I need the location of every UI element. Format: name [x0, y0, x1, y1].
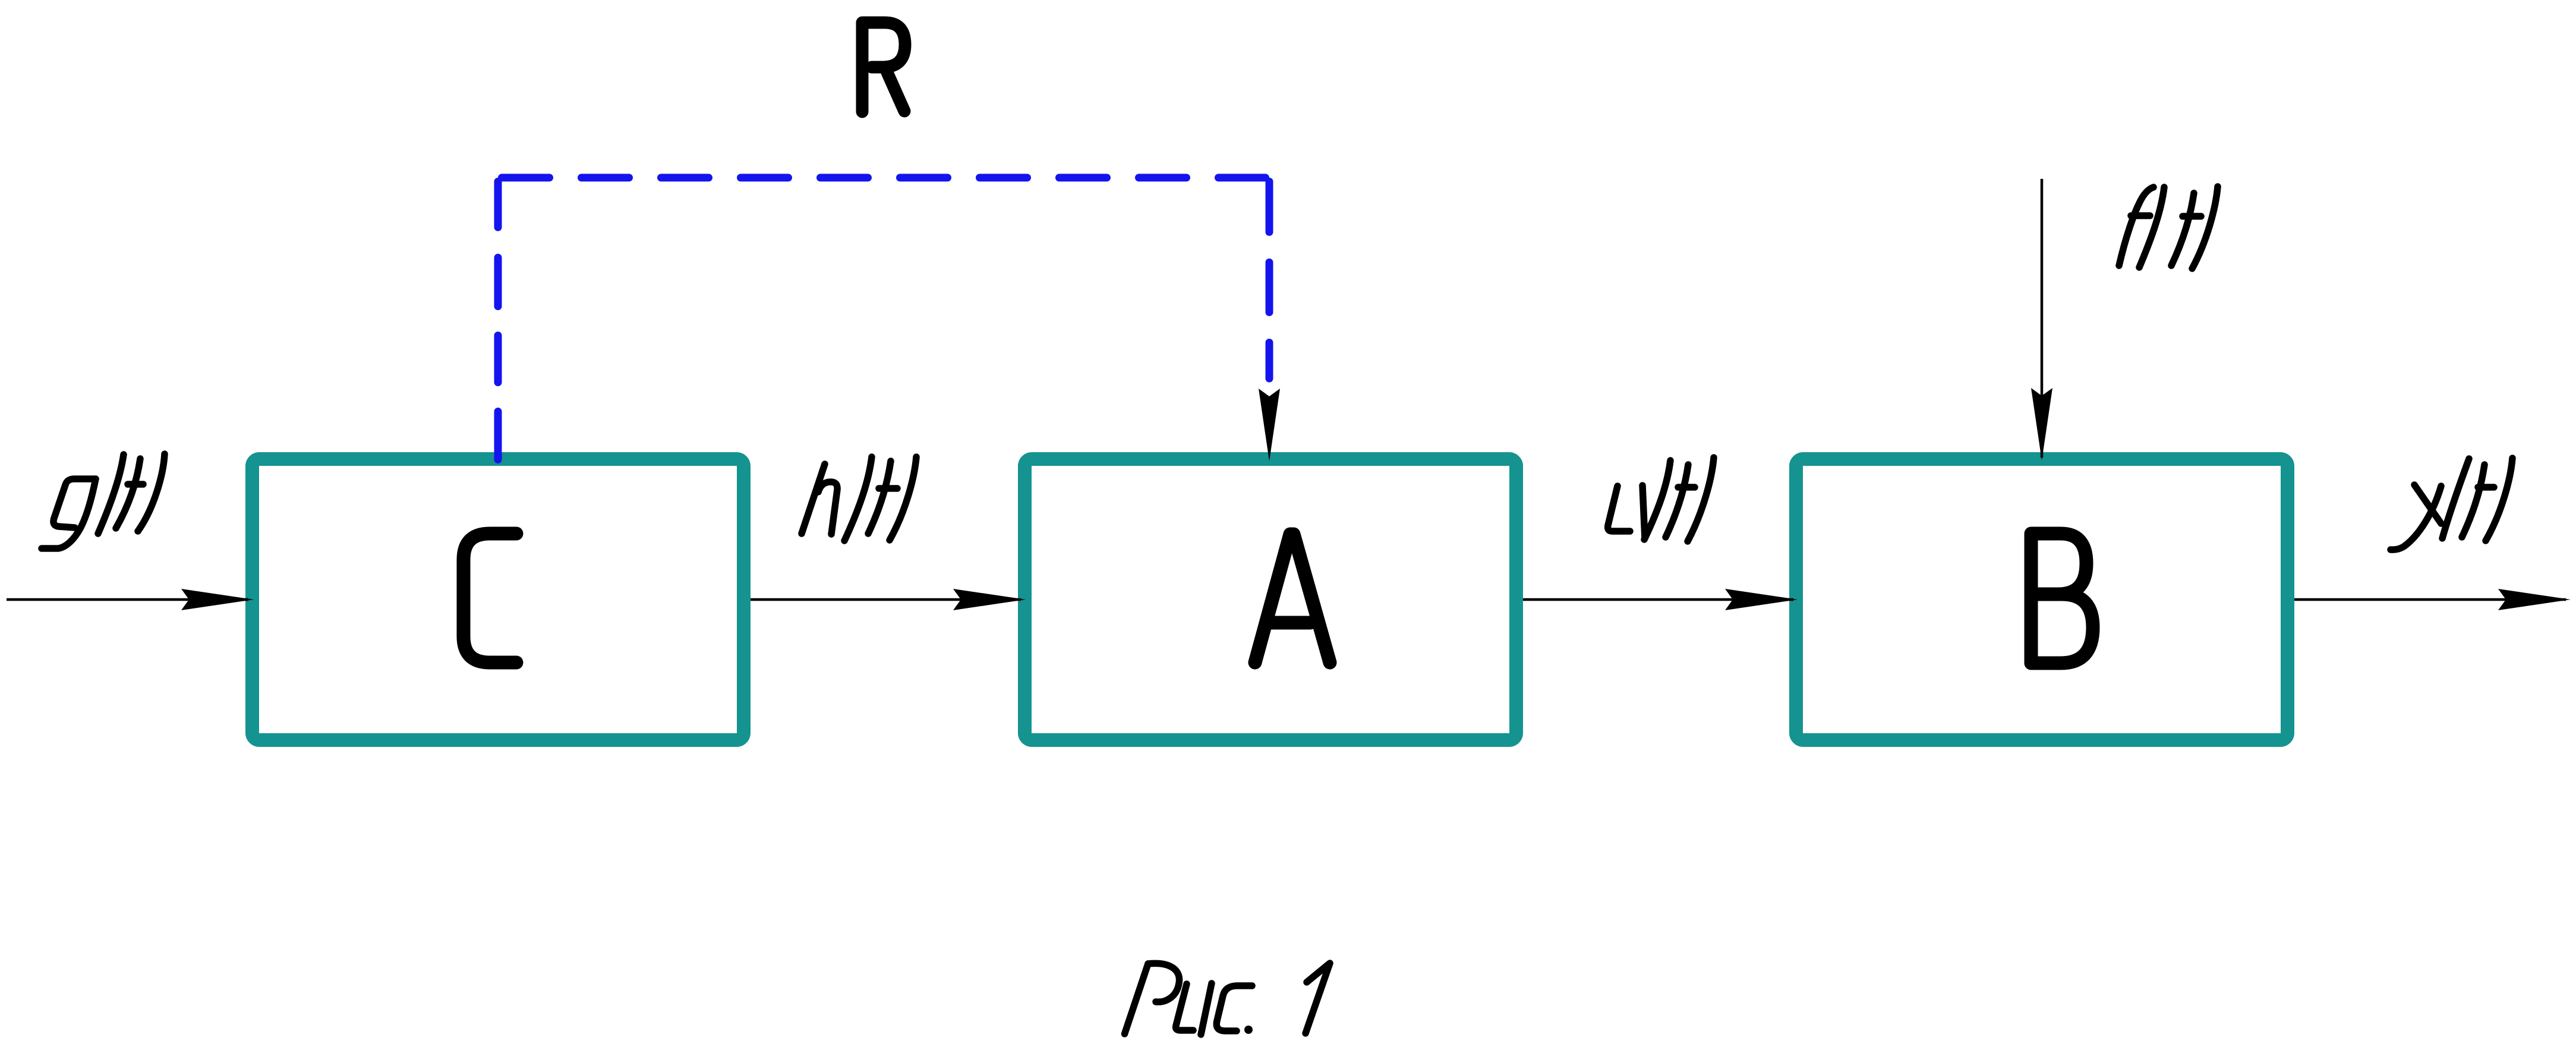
- label u(t): [1608, 458, 1714, 541]
- label y(t): [2391, 458, 2512, 550]
- wire f(t): [2041, 179, 2044, 458]
- caption 1: [1306, 963, 1330, 1033]
- label g(t): [42, 454, 165, 548]
- block A: [1025, 459, 1516, 740]
- label B: [2031, 534, 2093, 663]
- dashed feedback R: segment down into A: [1266, 182, 1273, 379]
- dashed feedback R: horizontal segment: [502, 174, 1266, 182]
- arrowhead y(t): [2498, 589, 2571, 610]
- block B: [1796, 459, 2288, 740]
- wire B out y(t): [2294, 598, 2566, 601]
- arrowhead into B: [1725, 589, 1798, 610]
- arrowhead R into A: [1259, 389, 1280, 461]
- wire C to A: [751, 598, 1021, 601]
- arrowhead f(t) into B: [2031, 388, 2052, 460]
- block C: [253, 459, 744, 740]
- dashed feedback R: segment up from C: [494, 182, 502, 460]
- label f(t): [2119, 187, 2218, 269]
- wire A to B: [1523, 598, 1793, 601]
- label h(t): [802, 457, 916, 541]
- arrowhead into A: [953, 589, 1026, 610]
- arrowhead into C: [181, 589, 254, 610]
- caption Puc. 1: [1125, 963, 1253, 1034]
- label C: [464, 534, 516, 663]
- wire g(t): [7, 598, 248, 601]
- label A: [1255, 534, 1330, 663]
- caption dot: [1244, 1026, 1253, 1034]
- label R: [862, 23, 905, 112]
